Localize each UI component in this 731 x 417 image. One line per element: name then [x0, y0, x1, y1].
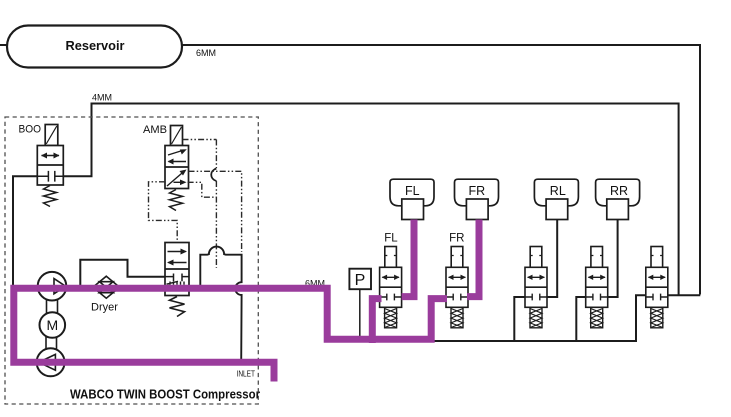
pressure sensor P line — [359, 289, 361, 338]
check valve arc on pilot — [211, 169, 216, 182]
wire 4MM line from BOO valve right port up and across to right side — [63, 104, 679, 295]
svg-text:RL: RL — [550, 184, 566, 198]
valve FR wheel — [446, 247, 468, 328]
wire BOO left port down to compressor outlet — [13, 176, 37, 290]
svg-text:BOO: BOO — [19, 124, 42, 136]
valve AMB (3/2 solenoid) — [165, 126, 189, 189]
reservoir tank — [0, 26, 182, 68]
wire RR bellows to RR valve — [608, 220, 618, 298]
pressure sensor P box — [349, 269, 371, 290]
svg-text:Dryer: Dryer — [91, 302, 118, 314]
svg-text:Reservoir: Reservoir — [65, 38, 124, 53]
motor M (middle circle) — [40, 312, 66, 338]
compressor stage 1 (top circle) — [38, 272, 67, 301]
wire RR valve left port to manifold — [576, 297, 586, 341]
svg-text:4MM: 4MM — [92, 93, 112, 103]
purple FL bellows line — [402, 220, 414, 297]
pilot line from AMB left port to purge valve top — [149, 182, 178, 243]
pilot line from AMB right port to pilot junction — [188, 182, 217, 197]
valve exhaust (far right) — [646, 247, 668, 328]
air spring bellows RL — [534, 179, 578, 219]
svg-text:WABCO TWIN BOOST Compressor: WABCO TWIN BOOST Compressor — [70, 388, 260, 402]
svg-text:FR: FR — [468, 184, 485, 198]
pilot line continues into dome — [215, 181, 217, 268]
valve RL wheel — [525, 247, 547, 328]
wire RL bellows to RL valve — [547, 220, 558, 298]
compressor stage 2 (bottom circle) — [37, 348, 65, 376]
wire exhaust valve left port to manifold — [636, 295, 646, 340]
wire exhaust valve right port to 6MM/4MM drop — [668, 294, 701, 296]
air spring bellows RR — [596, 179, 640, 219]
dryer — [93, 276, 120, 298]
exhaust dome / unloader — [200, 247, 241, 362]
svg-text:INLET: INLET — [237, 370, 256, 379]
air spring bellows FL — [390, 179, 434, 219]
svg-text:FR: FR — [449, 233, 464, 245]
pilot line from AMB right port to exhaust stem — [189, 171, 242, 252]
svg-text:6MM: 6MM — [196, 48, 216, 58]
wire compressor outlet to purge valve — [80, 260, 165, 289]
svg-text:AMB: AMB — [143, 124, 167, 136]
valve FL wheel — [380, 247, 402, 328]
spring of BOO — [44, 186, 57, 207]
purple branch to FL valve — [372, 299, 381, 343]
air spring bellows FR — [455, 179, 499, 219]
purple FR bellows line — [467, 220, 479, 297]
svg-text:P: P — [355, 272, 366, 289]
purple highlight main loop — [14, 288, 447, 381]
spring of AMB — [170, 190, 183, 211]
wire 6MM line from reservoir to right side down to exhaust valve — [182, 45, 700, 295]
svg-text:FL: FL — [405, 184, 420, 198]
valve BOO (2/2 solenoid) — [37, 125, 63, 186]
svg-text:RR: RR — [610, 184, 628, 198]
svg-text:FL: FL — [384, 233, 398, 245]
wire RL valve left port to manifold — [514, 297, 524, 341]
wire rear manifold — [434, 340, 637, 342]
pilot line from AMB solenoid top to right — [183, 139, 217, 141]
valve RR wheel — [586, 247, 608, 328]
compressor motor unit — [46, 299, 58, 350]
svg-text:M: M — [46, 317, 58, 333]
valve purge/governor — [165, 243, 189, 296]
dashed enclosure WABCO compressor box — [5, 117, 258, 404]
spring of purge valve — [170, 297, 185, 317]
pilot line vertical to dome — [215, 140, 217, 169]
